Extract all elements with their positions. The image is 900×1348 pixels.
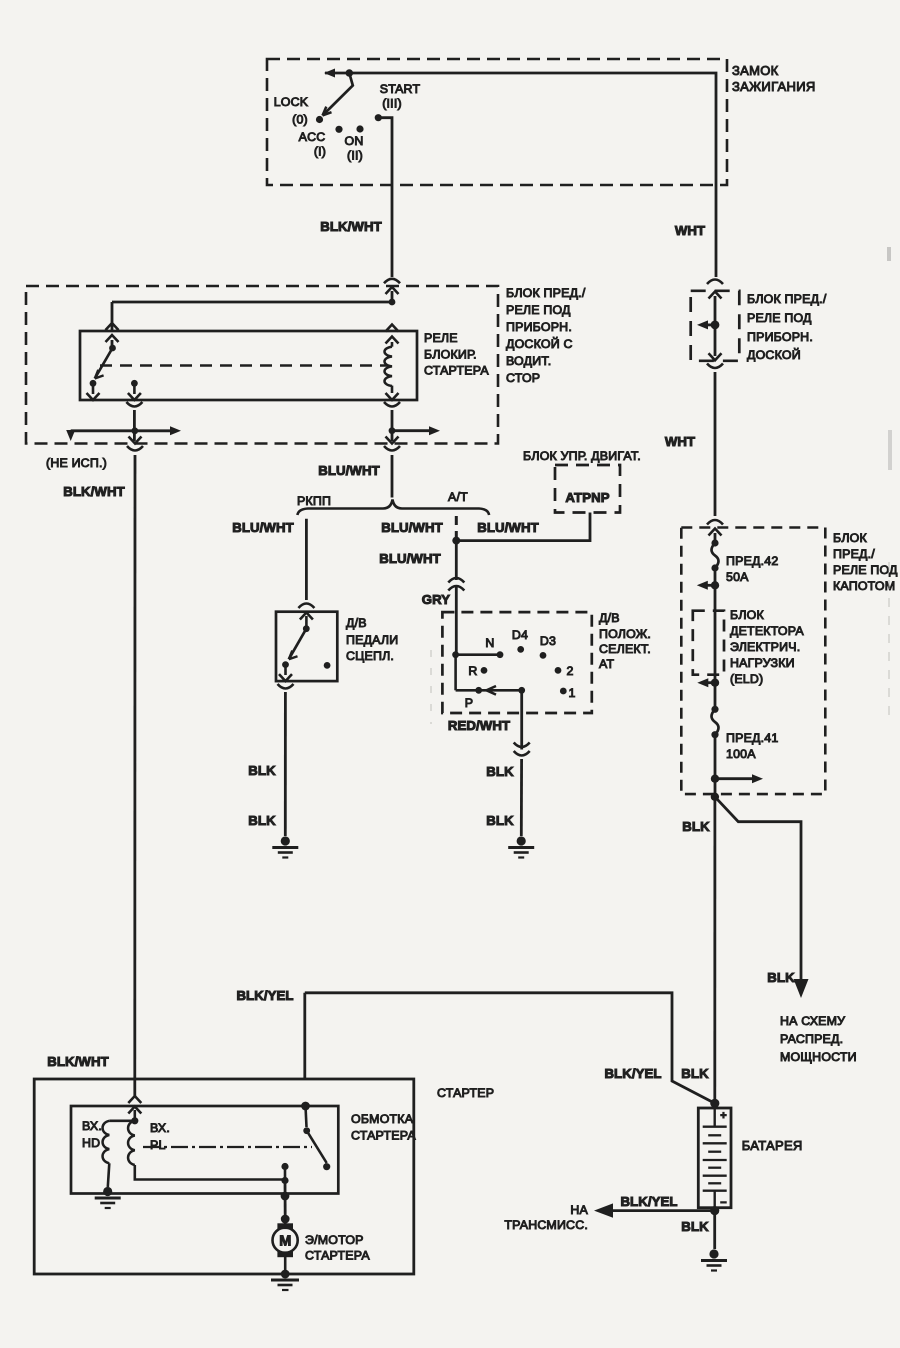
label WHT (2) (665, 434, 695, 449)
svg-text:ВХ.: ВХ. (82, 1119, 102, 1133)
starter switch pivot (303, 1127, 310, 1134)
wire BLK/WHT ignition to fuse-relay box (391, 185, 394, 277)
relay switch pivot (109, 345, 116, 352)
svg-text:BLK: BLK (248, 763, 276, 778)
connector out of dash fuse box (arc) (707, 364, 723, 369)
svg-text:ОБМОТКА: ОБМОТКА (351, 1112, 414, 1126)
svg-text:BLK: BLK (681, 1219, 709, 1234)
label BLK/WHT (320, 219, 382, 234)
svg-text:СТОР: СТОР (506, 371, 540, 385)
label BLK/YEL transmission (620, 1194, 677, 1209)
svg-text:+: + (720, 1110, 726, 1122)
selector output node (518, 687, 525, 694)
wire BLK to battery (713, 797, 716, 1104)
label BLK battery ground (681, 1219, 709, 1234)
svg-text:START: START (380, 82, 421, 96)
svg-text:ПРИБОРН.: ПРИБОРН. (747, 330, 813, 344)
svg-text:(НЕ ИСП.): (НЕ ИСП.) (46, 456, 107, 470)
tap arrow left (fuse42) (697, 581, 715, 590)
label BLK/WHT left (63, 484, 125, 499)
contact ON (356, 125, 363, 132)
svg-text:Э/МОТОР: Э/МОТОР (305, 1233, 364, 1247)
svg-text:(III): (III) (382, 97, 402, 111)
connector out of box coil wire (384, 437, 400, 451)
wire through ELD (714, 611, 717, 709)
selector wire down to P row (454, 655, 457, 691)
svg-text:Д/В: Д/В (346, 616, 367, 630)
contact LOCK (316, 116, 323, 123)
pedal switch contact (282, 661, 289, 668)
wire ignition feed (top horizontal to WHT drop) (325, 73, 716, 185)
svg-text:ПРЕД./: ПРЕД./ (833, 547, 875, 561)
relay contact to case (chevron) (87, 386, 100, 400)
svg-text:BLK: BLK (486, 764, 514, 779)
relay output wire (133, 386, 136, 394)
svg-text:1: 1 (568, 686, 575, 700)
label RED/WHT (448, 718, 510, 733)
ground starter motor (271, 1280, 299, 1290)
label БЛОК ДЕТЕКТОРА ЭЛЕКТРИЧ. НАГРУЗКИ (ELD) (730, 608, 804, 686)
svg-text:РЕЛЕ: РЕЛЕ (424, 331, 458, 345)
starter switch stub (306, 1106, 307, 1127)
node coil branch junction (389, 427, 396, 434)
svg-text:НА: НА (570, 1203, 588, 1217)
wire through dash fuse box (714, 296, 717, 356)
relay coil connector top (386, 325, 399, 344)
ground selector (508, 836, 534, 857)
wire relay output down (133, 410, 136, 441)
label ОБМОТКА СТАРТЕРА (351, 1112, 416, 1143)
connector into starter winding (128, 1096, 141, 1114)
clutch pedal switch box Д/В ПЕДАЛИ СЦЕПЛ. (276, 612, 337, 681)
contact P (465, 687, 482, 710)
label ПРЕД.42 50А (726, 554, 778, 584)
wire fuse41 down (714, 735, 717, 797)
label BLK/YEL at battery (604, 1066, 661, 1081)
wire BLK/YEL battery to starter (305, 993, 715, 1104)
svg-text:СТАРТЕРА: СТАРТЕРА (351, 1129, 416, 1143)
wire BLK/YEL to transmission (612, 1209, 715, 1212)
wire А/Т junction down (455, 541, 458, 580)
node motor feed (281, 1192, 290, 1201)
relay coil (385, 347, 393, 386)
wire junction to relay switch side (112, 301, 392, 304)
ignition switch arm (323, 73, 353, 116)
connector arc into box (384, 279, 400, 284)
label BLU/WHT center (318, 463, 380, 478)
svg-text:BLK/YEL: BLK/YEL (236, 988, 293, 1003)
node winding junction (131, 1117, 138, 1124)
svg-text:ДЕТЕКТОРА: ДЕТЕКТОРА (730, 624, 804, 638)
node А/Т junction (452, 537, 460, 545)
svg-text:BLU/WHT: BLU/WHT (232, 520, 294, 535)
branch to power distribution (715, 797, 801, 985)
label ЗАМОК ЗАЖИГАНИЯ (732, 63, 816, 94)
wiper arrow (487, 686, 497, 695)
relay switch arm (95, 348, 113, 379)
starter lock relay box РЕЛЕ БЛОКИР. СТАРТЕРА (80, 331, 417, 400)
solenoid contact post (284, 1167, 287, 1181)
svg-text:ACC: ACC (299, 130, 326, 144)
label BLU/WHT (А/Т branch left) (381, 520, 443, 535)
svg-text:D3: D3 (540, 634, 556, 648)
svg-text:(II): (II) (347, 149, 363, 163)
label РКПП (297, 494, 331, 508)
fuse ПРЕД.41 100A (711, 706, 718, 739)
connector chevron bottom (709, 353, 722, 360)
svg-text:ЗАЖИГАНИЯ: ЗАЖИГАНИЯ (732, 79, 816, 94)
label ВХ. PL (150, 1121, 170, 1152)
branch right arrow (135, 426, 181, 435)
svg-text:ПРИБОРН.: ПРИБОРН. (506, 320, 572, 334)
svg-text:ЭЛЕКТРИЧ.: ЭЛЕКТРИЧ. (730, 640, 800, 654)
pedal switch stub (305, 616, 308, 626)
svg-text:СЕЛЕКТ.: СЕЛЕКТ. (599, 642, 651, 656)
node relay feed junction (389, 299, 396, 306)
inline connector RED/WHT-BLK (514, 743, 530, 756)
svg-text:BLU/WHT: BLU/WHT (477, 520, 539, 535)
pull-in coil output (135, 1165, 285, 1180)
label BLK/YEL starter feed (236, 988, 293, 1003)
svg-text:BLK: BLK (486, 813, 514, 828)
tap arrow left (697, 320, 715, 329)
ground hold-in coil (95, 1187, 121, 1208)
wire BLK/YEL drop to starter switch (303, 993, 306, 1079)
ignition switch box ЗАМОК ЗАЖИГАНИЯ (dashed) (267, 59, 727, 185)
label Д/В ПОЛОЖ. СЕЛЕКТ. АТ (599, 611, 651, 671)
wire GRY (455, 585, 458, 655)
svg-text:RED/WHT: RED/WHT (448, 718, 510, 733)
svg-text:WHT: WHT (675, 223, 705, 238)
under-dash fuse/relay box (dashed) (26, 286, 498, 444)
label ACC (I) (299, 130, 327, 159)
node tap below fuse 42 (711, 581, 719, 589)
svg-text:BLK/WHT: BLK/WHT (320, 219, 382, 234)
svg-text:ДОСКОЙ С: ДОСКОЙ С (506, 336, 573, 351)
svg-text:P: P (465, 696, 473, 710)
svg-text:СЦЕПЛ.: СЦЕПЛ. (346, 649, 394, 663)
wire to starter motor (284, 1181, 287, 1220)
svg-text:ВХ.: ВХ. (150, 1121, 170, 1135)
svg-text:А/Т: А/Т (448, 490, 468, 504)
starter switch arm (open) (307, 1131, 327, 1163)
svg-text:ПРЕД.42: ПРЕД.42 (726, 554, 778, 568)
contact D4 (512, 628, 528, 653)
svg-text:РАСПРЕД.: РАСПРЕД. (780, 1032, 843, 1046)
contact 1 (560, 686, 576, 700)
svg-text:БАТАРЕЯ: БАТАРЕЯ (742, 1138, 803, 1153)
label Э/МОТОР СТАРТЕРА (305, 1233, 370, 1263)
label BLK selector 2 (486, 813, 514, 828)
svg-text:(0): (0) (292, 113, 308, 127)
label НА ТРАНСМИСС. (504, 1203, 588, 1232)
svg-text:100А: 100А (726, 747, 756, 761)
arrow to power distribution (794, 979, 809, 998)
svg-text:BLK/YEL: BLK/YEL (620, 1194, 677, 1209)
fuse ПРЕД.42 50A (711, 539, 718, 571)
scan artifact right edge (887, 247, 892, 722)
svg-text:(I): (I) (314, 145, 326, 159)
label ATPNP (565, 490, 609, 505)
label M (279, 1234, 291, 1250)
starter winding box ОБМОТКА СТАРТЕРА (71, 1106, 338, 1194)
node dash fuse box tap (711, 321, 720, 330)
node solenoid contact top (281, 1163, 288, 1170)
connector chevron below edge (386, 287, 399, 294)
svg-text:БЛОК: БЛОК (833, 531, 868, 545)
battery plus (720, 1110, 726, 1122)
connector out of box left (127, 437, 143, 451)
ground pedal switch (272, 836, 298, 857)
svg-text:ON: ON (345, 134, 364, 148)
wire WHT to hood fuse box (714, 372, 717, 516)
label РЕЛЕ БЛОКИР. СТАРТЕРА (424, 331, 489, 378)
svg-text:Д/В: Д/В (599, 611, 620, 625)
connector into pedal switch (298, 604, 314, 620)
svg-text:РКПП: РКПП (297, 494, 331, 508)
wire BLU/WHT to split (391, 455, 394, 498)
label БЛОК УПР. ДВИГАТ. (523, 449, 641, 463)
label BLK at battery (681, 1066, 709, 1081)
label BLK battery feed (682, 819, 710, 834)
contact D3 (540, 634, 557, 659)
scan artifact left mid (430, 650, 432, 724)
label BLK power dist (767, 970, 795, 985)
ELD box БЛОК ДЕТЕКТОРА (dashed) (693, 611, 724, 675)
wire BLK pedal to ground (284, 692, 287, 836)
label ON (II) (345, 134, 364, 163)
pedal switch arm (289, 629, 307, 660)
svg-text:BLK: BLK (248, 813, 276, 828)
dash fuse/relay box БЛОК ПРЕД. (dashed) (691, 291, 740, 361)
svg-text:ТРАНСМИСС.: ТРАНСМИСС. (504, 1218, 588, 1232)
wire battery to ground (713, 1211, 716, 1249)
label START (III) (380, 82, 421, 111)
gear position switch box (dashed) Д/В ПОЛОЖ. СЕЛЕКТ. АТ (442, 612, 591, 713)
hold-in coil to ground (108, 1163, 110, 1187)
wire relay coil down (391, 410, 394, 441)
label БЛОК ПРЕД./РЕЛЕ ПОД ПРИБОРН. ДОСКОЙ С ВОДИТ. СТОР (506, 286, 586, 385)
label БАТАРЕЯ (742, 1138, 803, 1153)
svg-text:БЛОК: БЛОК (730, 608, 765, 622)
arrow to transmission (594, 1203, 613, 1217)
svg-text:GRY: GRY (422, 592, 450, 607)
svg-text:BLK/WHT: BLK/WHT (63, 484, 125, 499)
label (НЕ ИСП.) (46, 456, 107, 470)
pull-in coil ВХ.PL (128, 1121, 135, 1165)
svg-text:БЛОКИР.: БЛОКИР. (424, 348, 477, 362)
svg-text:РЕЛЕ ПОД: РЕЛЕ ПОД (747, 311, 812, 325)
svg-text:BLK: BLK (682, 819, 710, 834)
inline connector GRY (448, 578, 464, 591)
label BLU/WHT (А/Т branch right) (477, 520, 539, 535)
А/Т branch dashed stub (455, 516, 458, 538)
svg-text:КАПОТОМ: КАПОТОМ (833, 579, 895, 593)
svg-text:ПРЕД.41: ПРЕД.41 (726, 731, 778, 745)
label BLU/WHT (РКПП branch) (232, 520, 294, 535)
svg-text:D4: D4 (512, 628, 528, 642)
wire drop to relay switch (111, 302, 114, 331)
contact ACC (335, 126, 342, 133)
svg-text:НАГРУЗКИ: НАГРУЗКИ (730, 656, 795, 670)
svg-text:BLU/WHT: BLU/WHT (381, 520, 443, 535)
contact 2 (555, 664, 574, 678)
svg-text:PL: PL (150, 1138, 166, 1152)
node not-used branch junction (131, 427, 138, 434)
label BLK selector 1 (486, 764, 514, 779)
relay output contact (131, 380, 138, 387)
label БЛОК ПРЕД./РЕЛЕ ПОД КАПОТОМ (833, 531, 898, 593)
label LOCK (0) (274, 95, 309, 127)
starter switch contact (323, 1163, 330, 1170)
svg-text:ЗАМОК: ЗАМОК (732, 63, 779, 78)
svg-text:ПОЛОЖ.: ПОЛОЖ. (599, 627, 651, 641)
wire to hold-in coil (109, 1120, 135, 1123)
starter motor Э/МОТОР СТАРТЕРА (273, 1219, 298, 1271)
tap arrow left (ELD) (697, 678, 715, 687)
connector into hood fuse box (707, 520, 723, 536)
svg-text:LOCK: LOCK (274, 95, 309, 109)
svg-text:R: R (468, 664, 477, 678)
ground battery (701, 1249, 727, 1270)
connector into dash fuse box (arc) (707, 280, 723, 285)
svg-text:РЕЛЕ ПОД: РЕЛЕ ПОД (506, 303, 571, 317)
branch arrow right (power) (715, 774, 763, 783)
starter motor ground node (281, 1270, 290, 1279)
starter motor terminal (281, 1215, 290, 1224)
contact R (468, 664, 487, 678)
starter box СТАРТЕР (34, 1079, 414, 1274)
hood fuse/relay box БЛОК ПРЕД./РЕЛЕ ПОД КАПОТОМ (dashed) (681, 528, 825, 795)
wire BLK selector to ground (520, 759, 523, 836)
relay output connector (126, 393, 142, 407)
label ВХ. HD (82, 1119, 102, 1150)
label А/Т (448, 490, 468, 504)
relay coil lead bottom (391, 386, 394, 393)
node solenoid contact bottom (281, 1177, 288, 1184)
wire to engine control module (456, 513, 590, 541)
wire to relay junction (391, 291, 394, 302)
branch arrow right (coil) (392, 426, 440, 435)
wire BLK/WHT relay to starter (133, 455, 136, 1079)
node tap below ELD (711, 679, 719, 687)
svg-text:СТАРТЕРА: СТАРТЕРА (305, 1249, 370, 1263)
svg-text:50А: 50А (726, 570, 749, 584)
wire WHT ignition to fuse box (715, 185, 718, 277)
selector wire to N (456, 653, 500, 656)
svg-text:БЛОК УПР. ДВИГАТ.: БЛОК УПР. ДВИГАТ. (523, 449, 641, 463)
label СТАРТЕР (437, 1086, 494, 1100)
label BLK pedal 2 (248, 813, 276, 828)
svg-text:ДОСКОЙ: ДОСКОЙ (747, 347, 801, 362)
label БЛОК ПРЕД./РЕЛЕ ПОД ПРИБОРН. ДОСКОЙ (747, 292, 827, 362)
svg-text:АТ: АТ (599, 657, 614, 671)
wire BLU/WHT РКПП branch (305, 519, 308, 600)
node starter switch feed (301, 1102, 310, 1111)
svg-text:МОЩНОСТИ: МОЩНОСТИ (780, 1050, 857, 1064)
branch (НЕ ИСП.) left arrow (66, 430, 135, 441)
svg-text:ПЕДАЛИ: ПЕДАЛИ (346, 633, 398, 647)
split brace РКПП | А/Т (297, 500, 489, 516)
svg-text:ВОДИТ.: ВОДИТ. (506, 354, 551, 368)
battery minus (720, 1197, 726, 1209)
engine control module box ATPNP (dashed) (555, 465, 620, 513)
relay coil lead top (391, 342, 394, 347)
svg-text:BLU/WHT: BLU/WHT (318, 463, 380, 478)
wire BLK/WHT inside starter (133, 1079, 136, 1096)
relay coil connector bottom (384, 393, 400, 407)
contact N (485, 636, 503, 658)
selector common node (452, 651, 459, 658)
label BLK pedal 1 (248, 763, 276, 778)
connector chevron (709, 292, 722, 299)
wire START output (378, 118, 392, 185)
svg-text:HD: HD (82, 1136, 100, 1150)
wire into fuse 42 (714, 533, 717, 543)
arrow feed left (324, 69, 335, 78)
battery plates (703, 1108, 727, 1208)
wire fuse42 to ELD (714, 568, 717, 611)
label BLU/WHT below junction (379, 551, 441, 566)
svg-text:СТАРТЕРА: СТАРТЕРА (424, 364, 489, 378)
svg-text:WHT: WHT (665, 434, 695, 449)
svg-text:СТАРТЕР: СТАРТЕР (437, 1086, 494, 1100)
wire RED/WHT selector output (520, 690, 523, 749)
svg-text:BLK/YEL: BLK/YEL (604, 1066, 661, 1081)
svg-text:БЛОК ПРЕД./: БЛОК ПРЕД./ (747, 292, 827, 306)
svg-text:BLU/WHT: BLU/WHT (379, 551, 441, 566)
label BLK/WHT at starter (47, 1054, 109, 1069)
svg-text:BLK: BLK (681, 1066, 709, 1081)
node battery positive (710, 1099, 719, 1108)
node battery negative (710, 1206, 719, 1215)
hold-in coil ВХ.HD (103, 1121, 110, 1163)
node hood box output (711, 793, 719, 801)
relay switch contact (90, 380, 97, 387)
battery box БАТАРЕЯ (698, 1108, 731, 1208)
svg-text:2: 2 (566, 664, 573, 678)
svg-text:BLK: BLK (767, 970, 795, 985)
selector P row wire (456, 689, 522, 692)
svg-text:(ELD): (ELD) (730, 672, 763, 686)
starter mechanical link (dash-dot) (143, 1146, 312, 1148)
connector chevrons relay switch input (106, 323, 119, 342)
svg-text:N: N (485, 636, 494, 650)
label Д/В ПЕДАЛИ СЦЕПЛ. (346, 616, 398, 663)
pedal switch pivot (303, 625, 310, 632)
node ignition feed junction (346, 69, 354, 77)
svg-text:ATPNP: ATPNP (565, 490, 609, 505)
svg-text:БЛОК ПРЕД./: БЛОК ПРЕД./ (506, 286, 586, 300)
svg-text:BLK/WHT: BLK/WHT (47, 1054, 109, 1069)
svg-text:НА СХЕМУ: НА СХЕМУ (780, 1014, 845, 1028)
svg-text:M: M (279, 1234, 291, 1250)
relay mechanical link (dashed) (100, 364, 388, 366)
relay switch input stub (111, 340, 114, 345)
winding feed stub (134, 1110, 137, 1121)
connector out of pedal switch (278, 684, 294, 689)
node power branch (711, 775, 719, 783)
contact START (375, 114, 382, 121)
label WHT (675, 223, 705, 238)
label ПРЕД.41 100А (726, 731, 778, 761)
label GRY (422, 592, 450, 607)
pedal switch NC contact (324, 662, 331, 669)
svg-text:−: − (720, 1197, 726, 1209)
label НА СХЕМУ РАСПРЕД. МОЩНОСТИ (780, 1014, 857, 1064)
pedal switch output (279, 667, 292, 681)
